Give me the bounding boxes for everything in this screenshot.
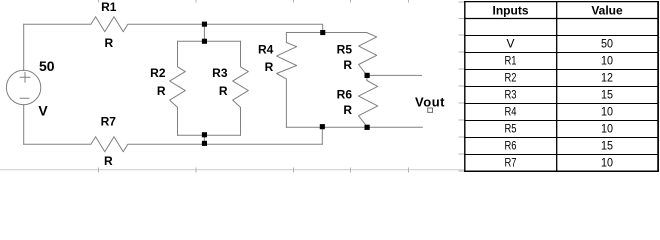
svg-text:R: R xyxy=(343,58,352,72)
svg-text:Inputs: Inputs xyxy=(493,3,529,17)
svg-text:Value: Value xyxy=(591,3,623,17)
svg-text:R7: R7 xyxy=(505,156,517,170)
svg-text:R2: R2 xyxy=(150,66,166,80)
svg-text:10: 10 xyxy=(601,105,613,119)
svg-text:15: 15 xyxy=(601,88,613,102)
svg-text:R1: R1 xyxy=(101,0,117,14)
svg-text:R: R xyxy=(104,154,113,168)
svg-text:R: R xyxy=(104,36,113,50)
svg-text:10: 10 xyxy=(601,122,613,136)
svg-text:R: R xyxy=(343,103,352,117)
svg-text:R2: R2 xyxy=(505,71,517,85)
svg-text:R1: R1 xyxy=(505,54,517,68)
svg-text:R3: R3 xyxy=(505,88,517,102)
svg-text:R4: R4 xyxy=(258,42,274,56)
svg-text:10: 10 xyxy=(601,156,613,170)
svg-text:R5: R5 xyxy=(505,122,517,136)
svg-text:V: V xyxy=(506,37,514,51)
svg-text:R6: R6 xyxy=(337,87,353,101)
svg-text:R5: R5 xyxy=(337,43,353,57)
svg-text:R6: R6 xyxy=(505,139,517,153)
svg-text:R3: R3 xyxy=(212,66,228,80)
svg-text:10: 10 xyxy=(601,54,613,68)
svg-text:V: V xyxy=(38,102,48,118)
svg-text:R: R xyxy=(219,84,228,98)
svg-text:R: R xyxy=(265,60,274,74)
svg-text:Vout: Vout xyxy=(415,94,445,109)
svg-text:R: R xyxy=(157,84,166,98)
svg-text:R4: R4 xyxy=(505,105,517,119)
svg-text:50: 50 xyxy=(601,37,613,51)
svg-text:12: 12 xyxy=(601,71,613,85)
svg-text:15: 15 xyxy=(601,139,613,153)
svg-text:50: 50 xyxy=(39,58,55,74)
svg-text:R7: R7 xyxy=(101,114,117,128)
